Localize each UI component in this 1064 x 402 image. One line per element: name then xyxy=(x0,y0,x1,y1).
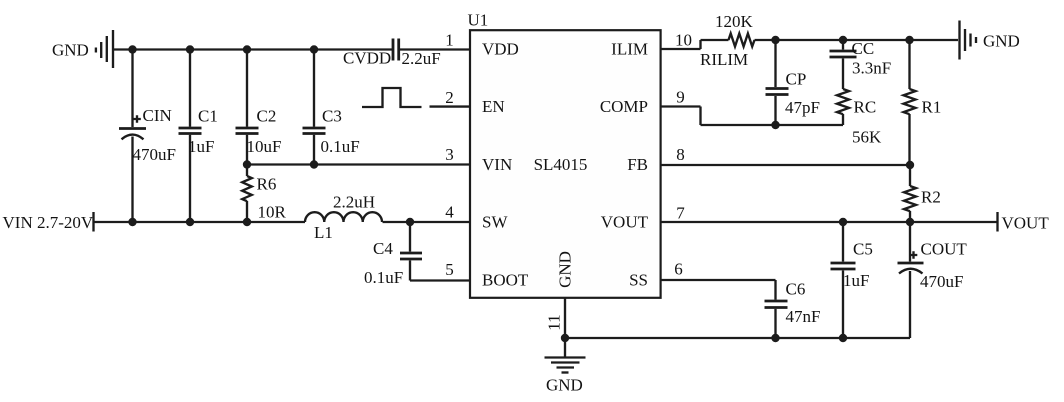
svg-text:R2: R2 xyxy=(921,188,941,207)
svg-text:EN: EN xyxy=(482,97,505,116)
svg-text:ILIM: ILIM xyxy=(611,40,648,59)
svg-text:VIN: VIN xyxy=(482,155,512,174)
svg-text:0.1uF: 0.1uF xyxy=(364,268,403,287)
svg-text:470uF: 470uF xyxy=(133,145,176,164)
svg-text:9: 9 xyxy=(676,88,685,107)
svg-text:U1: U1 xyxy=(468,11,489,30)
svg-text:3: 3 xyxy=(445,145,454,164)
svg-text:R1: R1 xyxy=(922,98,942,117)
svg-text:VOUT: VOUT xyxy=(601,213,649,232)
svg-text:56K: 56K xyxy=(852,128,882,147)
svg-text:2.2uF: 2.2uF xyxy=(402,49,441,68)
svg-text:6: 6 xyxy=(674,260,683,279)
svg-text:BOOT: BOOT xyxy=(482,271,529,290)
svg-text:FB: FB xyxy=(627,155,648,174)
svg-text:COMP: COMP xyxy=(600,97,648,116)
svg-text:CP: CP xyxy=(786,70,807,89)
svg-text:11: 11 xyxy=(545,314,564,330)
svg-text:1uF: 1uF xyxy=(188,137,214,156)
svg-text:3.3nF: 3.3nF xyxy=(852,59,891,78)
svg-text:5: 5 xyxy=(445,260,454,279)
svg-text:C4: C4 xyxy=(373,239,393,258)
svg-text:L1: L1 xyxy=(314,223,333,242)
svg-text:7: 7 xyxy=(676,204,685,223)
svg-text:VOUT: VOUT xyxy=(1002,214,1050,233)
svg-text:47nF: 47nF xyxy=(786,307,821,326)
svg-text:C2: C2 xyxy=(257,107,277,126)
svg-text:C5: C5 xyxy=(853,240,873,259)
svg-text:1uF: 1uF xyxy=(843,271,869,290)
svg-text:GND: GND xyxy=(983,32,1020,51)
svg-text:VIN 2.7-20V: VIN 2.7-20V xyxy=(3,213,94,232)
svg-text:VDD: VDD xyxy=(482,40,519,59)
svg-text:RC: RC xyxy=(854,98,877,117)
svg-text:SS: SS xyxy=(629,271,648,290)
svg-text:10uF: 10uF xyxy=(247,137,282,156)
svg-text:CVDD: CVDD xyxy=(343,49,391,68)
svg-text:470uF: 470uF xyxy=(920,272,963,291)
svg-text:GND: GND xyxy=(546,376,583,395)
svg-text:47pF: 47pF xyxy=(785,98,820,117)
svg-text:C3: C3 xyxy=(322,107,342,126)
svg-text:2.2uH: 2.2uH xyxy=(333,193,375,212)
svg-text:SL4015: SL4015 xyxy=(534,155,588,174)
svg-text:1: 1 xyxy=(445,31,454,50)
svg-text:4: 4 xyxy=(445,203,454,222)
svg-text:GND: GND xyxy=(556,251,575,288)
svg-text:2: 2 xyxy=(445,88,454,107)
svg-text:COUT: COUT xyxy=(921,240,968,259)
svg-text:C1: C1 xyxy=(198,107,218,126)
svg-text:C6: C6 xyxy=(786,280,806,299)
svg-text:8: 8 xyxy=(676,145,685,164)
svg-text:RILIM: RILIM xyxy=(700,50,748,69)
svg-text:0.1uF: 0.1uF xyxy=(321,137,360,156)
svg-text:10R: 10R xyxy=(258,203,287,222)
svg-text:120K: 120K xyxy=(715,12,754,31)
svg-text:10: 10 xyxy=(675,31,692,50)
svg-text:CIN: CIN xyxy=(143,106,172,125)
svg-text:GND: GND xyxy=(52,41,89,60)
svg-text:SW: SW xyxy=(482,213,508,232)
svg-text:CC: CC xyxy=(852,39,875,58)
svg-text:R6: R6 xyxy=(257,175,277,194)
